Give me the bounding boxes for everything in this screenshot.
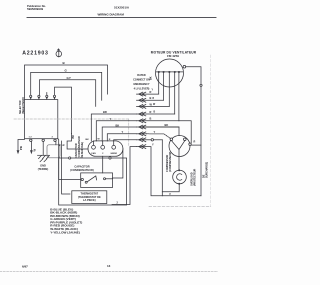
power cord prong 2 (30, 142, 36, 155)
overload protector (173, 170, 187, 184)
svg-text:BK: BK (86, 139, 90, 141)
wire R to room thermostat bottom (62, 141, 70, 194)
svg-text:51X2501/A: 51X2501/A (114, 6, 130, 10)
wire BK to compressor (144, 127, 180, 136)
fan motor (156, 59, 184, 87)
compressor right terminal (189, 143, 191, 145)
power cord prong 1 (17, 140, 25, 155)
wire Y from connector to capacitor (96, 121, 136, 141)
connector row 6 (137, 123, 180, 129)
compressor terminal S (170, 138, 173, 141)
connector row 2 (137, 96, 164, 102)
svg-text:A221903: A221903 (22, 51, 48, 57)
overload label rotated (190, 162, 208, 186)
fan motor lead 3 (168, 72, 170, 106)
capacitor terminal labels (91, 152, 117, 155)
capacitor rotated label (75, 136, 84, 158)
connector row 8 (137, 138, 163, 142)
footer rule (0, 270, 218, 272)
svg-text:FAN: FAN (91, 152, 96, 155)
capacitor label (70, 165, 94, 172)
fan motor lead 4 (174, 72, 176, 114)
capacitor right wire down (113, 149, 123, 178)
svg-text:Y: Y (110, 117, 112, 121)
capacitor terminal HERM (112, 145, 116, 149)
fan motor lead 2 (163, 72, 165, 100)
revision symbol (circled mark) (56, 48, 62, 57)
svg-text:6/97: 6/97 (22, 264, 28, 268)
thermostat switch (85, 176, 112, 183)
wire G loop (31, 72, 102, 100)
wire row5 to compressor R terminal (179, 121, 191, 143)
connector plug column (137, 90, 180, 149)
svg-text:Y: Y (122, 130, 124, 134)
svg-text:Y: Y (154, 130, 156, 134)
fan motor windings chord (156, 71, 183, 73)
svg-text:W: W (32, 149, 36, 152)
unit enclosure dashed right (210, 55, 212, 207)
connector row 7 (137, 130, 156, 136)
fan motor label (151, 50, 197, 58)
cord anchor box (47, 145, 60, 158)
compressor (169, 136, 190, 157)
fan motor right terminal (183, 65, 186, 68)
svg-text:GY: GY (67, 76, 71, 80)
svg-text:CONNECT ON: CONNECT ON (133, 79, 150, 82)
svg-text:B: B (150, 117, 152, 121)
svg-text:EMERGENCY: EMERGENCY (133, 83, 149, 86)
svg-text:BK: BK (116, 123, 120, 127)
svg-text:B: B (150, 96, 152, 100)
overload stem bottom (178, 183, 180, 185)
svg-text:(TERRE): (TERRE) (38, 167, 49, 171)
fan motor winding taps (158, 71, 180, 73)
svg-text:RATED: RATED (137, 74, 146, 77)
switch box bottom terminal left (30, 139, 32, 141)
wire BR from connector to capacitor (91, 114, 136, 141)
svg-text:FM 4259: FM 4259 (167, 54, 179, 58)
switch box terminal 3 stem (46, 93, 48, 97)
svg-text:4 LV (LEVER): 4 LV (LEVER) (134, 88, 150, 91)
capacitor terminal stems (93, 141, 95, 146)
control text block (133, 74, 150, 91)
thermostat left terminal (81, 178, 83, 180)
small wire labels (59, 143, 66, 146)
svg-text:BK: BK (72, 135, 75, 139)
wire color legend (50, 207, 82, 234)
overload stem top (178, 156, 180, 170)
svg-text:Y: Y (152, 143, 154, 147)
wire jog to capacitor (67, 134, 88, 150)
wire BK inner loop (55, 87, 72, 133)
svg-text:SURCHARGE): SURCHARGE) (205, 162, 208, 178)
wire B top loop (25, 65, 108, 100)
run capacitor (88, 141, 123, 156)
capacitor terminal FAN (92, 145, 96, 149)
capacitor C stem down (102, 156, 104, 173)
svg-text:BK: BK (150, 76, 153, 80)
connector row 1 (137, 90, 159, 96)
right bus junction (200, 84, 202, 86)
svg-text:(CONDENSATEUR): (CONDENSATEUR) (70, 168, 94, 172)
svg-text:13: 13 (107, 264, 111, 268)
svg-text:(SELECTEUR): (SELECTEUR) (22, 97, 25, 114)
overload switch symbol (177, 174, 182, 180)
svg-text:BK: BK (165, 123, 169, 127)
switch box rotated label (19, 97, 25, 114)
wire from connector to capacitor HERM (107, 134, 136, 141)
room thermostat switch box (81, 173, 113, 188)
fan motor lead 5 (178, 72, 180, 121)
wire compressor R to right bus (191, 144, 201, 146)
switch box bottom terminal right (54, 139, 56, 141)
ground wire (42, 142, 44, 156)
unit enclosure dashed bottom (149, 206, 211, 208)
switch box terminals top (30, 95, 56, 97)
svg-text:5995309949: 5995309949 (27, 7, 43, 11)
svg-text:BR: BR (103, 110, 107, 114)
control enclosure box (59, 158, 127, 205)
section boundary (dashed) (14, 118, 129, 120)
thermostat label box (72, 191, 107, 204)
svg-text:(COMPRESSEUR): (COMPRESSEUR) (169, 151, 172, 172)
wire BK from connector to capacitor C (102, 127, 136, 141)
chassis ground symbol (38, 155, 50, 162)
dashed lead to S terminal (147, 134, 171, 139)
fan motor lead labels (150, 76, 157, 113)
wire GY loop (40, 80, 96, 107)
wire row9 left to thermostat (112, 147, 137, 205)
compressor S return wire (161, 140, 163, 196)
svg-text:R: R (150, 110, 152, 114)
svg-text:DE MARCHE): DE MARCHE) (81, 142, 84, 158)
compressor windings (171, 141, 184, 150)
wire W to thermostat (58, 139, 81, 180)
connector row 3 (137, 102, 170, 108)
svg-text:R: R (194, 141, 196, 144)
svg-text:LA PIECE): LA PIECE) (83, 198, 96, 202)
svg-text:WIRING DIAGRAM: WIRING DIAGRAM (98, 12, 125, 16)
wire motor to right bus (186, 67, 201, 196)
switch box bottom terminal mid (42, 139, 44, 141)
svg-text:Y-YELLOW (JAUNE): Y-YELLOW (JAUNE) (50, 230, 80, 234)
connector row 5 (137, 117, 179, 123)
svg-text:(PROTECTEUR: (PROTECTEUR (193, 168, 196, 186)
cap area labels (86, 139, 111, 142)
header publication text (27, 4, 130, 17)
fan motor lead 1 (158, 72, 160, 94)
compressor terminal R (184, 138, 187, 141)
wire row8 left (114, 140, 137, 141)
svg-text:HERM: HERM (111, 153, 117, 155)
compressor label rotated (166, 151, 172, 172)
svg-text:R: R (63, 144, 66, 146)
selector switch box (25, 100, 58, 139)
connector row 4 (137, 110, 175, 116)
capacitor terminal C (101, 145, 105, 149)
connector row 9 (139, 143, 154, 149)
ground label (38, 164, 49, 171)
header rule (27, 17, 216, 19)
svg-text:PR: PR (19, 146, 23, 150)
bottom bus wire (137, 147, 202, 196)
